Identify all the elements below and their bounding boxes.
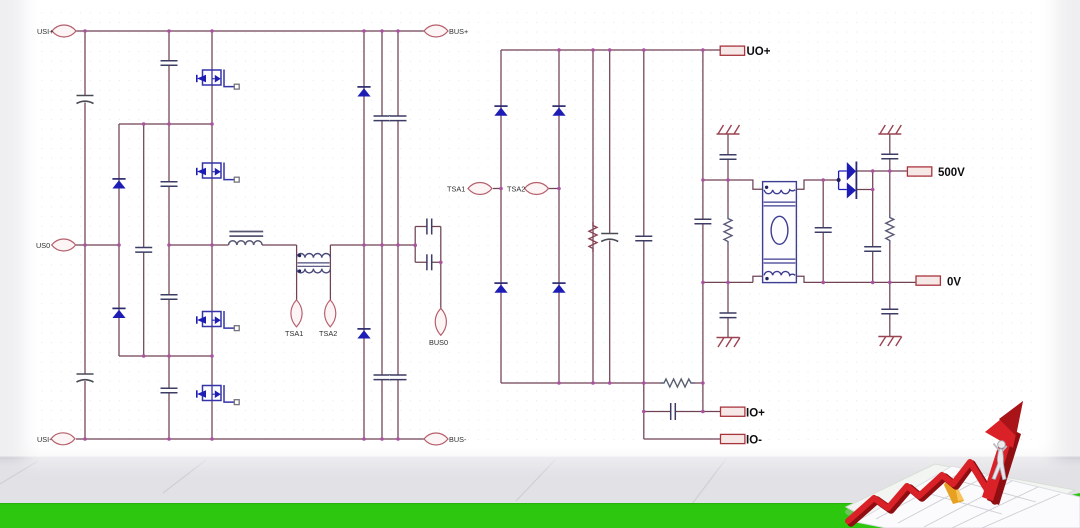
capacitor C16: [694, 219, 712, 224]
wire US0 stub: [76, 244, 119, 246]
capacitor C2: [76, 374, 94, 382]
port TSA2 mid: [525, 183, 549, 195]
port BUS0: [435, 308, 446, 335]
wire 0V rail y282: [703, 276, 916, 282]
svg-text:USI+: USI+: [37, 27, 53, 36]
wire cap leg x169: [168, 31, 170, 439]
capacitor C15: [635, 236, 653, 241]
ground GND3: [878, 125, 901, 134]
ground GND4: [878, 337, 902, 347]
capacitor C3: [135, 248, 153, 253]
capacitor C4: [160, 61, 178, 66]
port 500V: [907, 167, 931, 176]
wire output link y180: [703, 180, 839, 189]
wire filter leg x609.7: [609, 50, 611, 383]
ground GND1: [717, 125, 740, 134]
ground GND2: [717, 338, 741, 348]
wire rail x398: [397, 31, 399, 439]
svg-text:IO+: IO+: [746, 408, 765, 420]
chart clipart: [845, 401, 1080, 528]
port 0V: [916, 276, 940, 285]
port USI-: [51, 433, 75, 445]
wire cap-divider bracket: [415, 227, 441, 263]
wire leg x890 lower: [889, 282, 891, 336]
port IO+: [721, 407, 745, 416]
resistor R2: [660, 379, 695, 387]
wire BUS+ top rail: [76, 30, 424, 32]
transistor Q2: [197, 163, 239, 183]
svg-text:BUS-: BUS-: [449, 435, 467, 444]
resistor R4: [886, 214, 894, 244]
wire TSA1 lead: [296, 245, 298, 300]
svg-text:TSA2: TSA2: [507, 185, 525, 194]
wire MOSFET leg x212: [211, 31, 213, 439]
transistor Q1: [197, 70, 239, 90]
capacitor C12 top of divider: [427, 218, 432, 234]
wire UO+ top rail y50: [501, 49, 720, 51]
resistor R3: [724, 215, 732, 245]
capacitor C17: [671, 403, 676, 420]
wire diode leg x119: [118, 124, 120, 356]
capacitor C23: [864, 247, 882, 252]
wire leg x728 middle: [727, 180, 729, 282]
wire leg x728 lower: [727, 282, 729, 337]
wire filter leg x643.8: [643, 50, 645, 383]
wire dual-diode lower lead: [856, 189, 872, 191]
port USI+: [52, 25, 76, 37]
wire flying-cap leg x144: [143, 124, 145, 356]
dual diode D9 D10: [837, 162, 857, 200]
inductor L1: [229, 232, 264, 246]
capacitor C9: [373, 375, 391, 380]
diode D3: [357, 87, 370, 97]
schematic grid dots: [40, 6, 1040, 448]
svg-text:BUS+: BUS+: [449, 27, 468, 36]
wire left rail x85: [84, 31, 86, 439]
port TSA1 mid: [468, 183, 492, 195]
capacitor C14: [601, 234, 619, 242]
svg-text:TSA1: TSA1: [285, 329, 303, 338]
transformer T2: [763, 182, 797, 283]
svg-text:500V: 500V: [938, 167, 965, 179]
svg-text:TSA1: TSA1: [447, 185, 465, 194]
wire filter leg x593: [592, 50, 594, 383]
diode D4: [357, 329, 370, 339]
capacitor C7: [160, 388, 178, 393]
capacitor C10: [389, 116, 407, 121]
svg-text:IO-: IO-: [746, 435, 762, 447]
wire leg x890 middle: [889, 171, 891, 282]
port TSA1 left: [291, 300, 302, 327]
diode D1: [112, 179, 125, 189]
wire TSA1 port stub: [493, 188, 501, 190]
capacitor C21: [881, 309, 899, 314]
transistor Q4: [197, 385, 239, 405]
wire gnd leg x728 upper: [727, 134, 729, 180]
wire rail x364: [363, 31, 365, 439]
capacitor C19: [719, 313, 737, 318]
diode D2: [112, 308, 125, 318]
wire gnd leg x890 upper: [889, 134, 891, 171]
capacitor C8: [373, 116, 391, 121]
wire TSA2 port stub: [547, 188, 559, 190]
green footer bar: [0, 503, 1080, 528]
wire mid output y245: [169, 244, 415, 246]
wire bottom rail y383: [501, 382, 703, 384]
capacitor C11: [389, 375, 407, 380]
wire 500V lead: [856, 170, 907, 172]
wire TSA2 lead: [329, 245, 331, 300]
transistor Q3: [197, 311, 239, 331]
capacitor C1: [76, 96, 94, 104]
capacitor C5: [160, 182, 178, 187]
port IO-: [721, 434, 745, 443]
wire rectifier leg x559: [558, 50, 560, 383]
wire cap leg x823: [822, 180, 824, 282]
wire BUS0 lead: [440, 262, 442, 310]
diode D8: [552, 283, 565, 293]
resistor R1: [589, 222, 597, 252]
wire leg x872.7: [872, 171, 874, 282]
diode D6: [494, 283, 507, 293]
diode D7: [552, 106, 565, 116]
port UO+: [720, 46, 744, 55]
diode D5: [494, 106, 507, 116]
svg-text:US0: US0: [36, 241, 50, 250]
port TSA2 left: [325, 300, 336, 327]
svg-text:0V: 0V: [947, 277, 961, 289]
wire lower clamp y356: [119, 355, 212, 357]
svg-text:UO+: UO+: [747, 46, 771, 58]
wire BUS- bottom rail: [76, 438, 424, 440]
port US0: [52, 239, 76, 251]
capacitor C13 bottom of divider: [427, 254, 432, 270]
floor strip: [0, 456, 1080, 504]
capacitor C22: [814, 228, 832, 233]
port BUS-: [424, 433, 448, 445]
transformer T1: [297, 253, 331, 272]
wire leg x703: [702, 50, 704, 383]
capacitor C18: [719, 155, 737, 160]
svg-text:TSA2: TSA2: [319, 329, 337, 338]
svg-text:BUS0: BUS0: [429, 338, 448, 347]
capacitor C6: [160, 295, 178, 300]
wire rail x382: [381, 31, 383, 439]
svg-text:USI-: USI-: [37, 435, 52, 444]
wire rectifier leg x501: [500, 50, 502, 383]
port BUS+: [424, 25, 448, 37]
capacitor C20: [881, 154, 899, 159]
wire upper clamp y124: [119, 123, 212, 125]
wire IO branch: [644, 383, 721, 439]
